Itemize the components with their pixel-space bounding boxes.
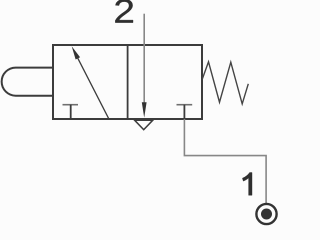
blocked port T (right square, port 1) xyxy=(177,104,193,106)
port 2 connection line xyxy=(143,14,145,104)
pressure source circle xyxy=(256,204,276,224)
blocked port T (left square) xyxy=(63,104,79,106)
return spring xyxy=(202,62,248,104)
exhaust triangle (port 3) xyxy=(135,120,153,130)
flow arrowhead 2->3 (right square) xyxy=(142,102,147,118)
pressure source dot xyxy=(261,209,272,220)
valve body (two-position 3/2 valve) xyxy=(53,45,202,119)
port label 2 xyxy=(115,0,133,23)
push-button actuator xyxy=(2,68,53,96)
position divider xyxy=(127,45,129,119)
port label 1 xyxy=(242,173,252,196)
flow path arrow 1->2 (left square) xyxy=(77,56,109,119)
wire port 1 to source xyxy=(184,119,266,204)
